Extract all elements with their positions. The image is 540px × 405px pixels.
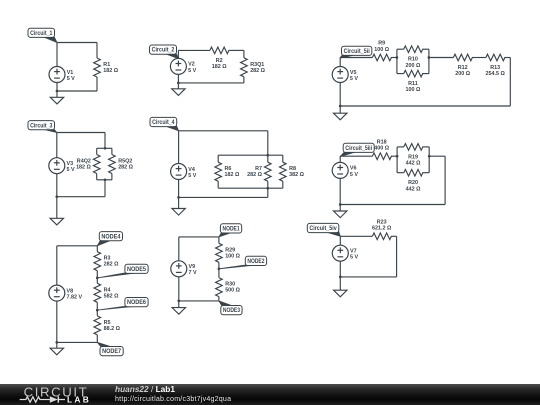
svg-text:5 V: 5 V <box>350 255 358 261</box>
svg-text:442 Ω: 442 Ω <box>406 161 421 167</box>
wire R5 top lead <box>96 310 98 316</box>
wire V3 bottom lead <box>56 174 58 197</box>
resistor R4 <box>94 283 119 302</box>
ground <box>172 197 185 215</box>
svg-text:182 Ω: 182 Ω <box>76 165 91 171</box>
wire R11 right lead <box>422 73 429 75</box>
wire V6 bottom lead <box>339 178 341 204</box>
svg-text:V7: V7 <box>350 249 357 255</box>
svg-text:582 Ω: 582 Ω <box>104 293 119 299</box>
circuit label Circuit_5iii <box>340 143 374 156</box>
resistor R6 <box>215 162 240 181</box>
circuit label Circuit_4 <box>150 117 179 130</box>
voltage source V8 <box>49 285 83 301</box>
wire V9 bottom lead <box>178 277 180 301</box>
node label NODE5 <box>97 264 148 278</box>
svg-text:V1: V1 <box>67 70 74 76</box>
svg-text:V3: V3 <box>67 161 74 167</box>
wire V5 top lead <box>339 58 341 67</box>
svg-text:Circuit_4: Circuit_4 <box>152 119 175 126</box>
wire top C5iv <box>340 235 372 237</box>
junction parallel bottom node C4 <box>266 187 269 190</box>
node label NODE2 <box>219 256 267 269</box>
wire R12-R13 <box>472 57 486 59</box>
wire top V8 circuit <box>57 245 98 247</box>
wire V3 top lead <box>56 133 58 158</box>
junction NODE2 <box>218 267 221 270</box>
svg-text:V8: V8 <box>67 288 74 294</box>
svg-text:200 Ω: 200 Ω <box>455 71 470 77</box>
wire parallel left vertical C5iii <box>396 147 398 173</box>
wire parallel bottom edge C4 <box>218 187 283 189</box>
wire C5iii right <box>429 155 445 157</box>
wire V5 bottom lead <box>339 82 341 106</box>
wire R4 top lead <box>96 278 98 283</box>
junction parallel bottom node C3 <box>104 178 107 181</box>
svg-text:Circuit_3: Circuit_3 <box>30 122 53 129</box>
svg-text:Circuit_5iv: Circuit_5iv <box>309 225 337 232</box>
wire parallel left vertical <box>396 49 398 73</box>
svg-text:100 Ω: 100 Ω <box>225 253 240 259</box>
junction C3 ground node <box>55 195 58 198</box>
svg-text:R23: R23 <box>377 219 387 225</box>
svg-text:88.2 Ω: 88.2 Ω <box>104 326 121 332</box>
svg-text:NODE7: NODE7 <box>102 348 122 355</box>
svg-text:NODE4: NODE4 <box>101 233 121 240</box>
wire bottom V8 circuit <box>57 341 98 343</box>
wire V9 top lead <box>178 237 180 261</box>
ground <box>50 197 63 225</box>
voltage source V6 <box>332 162 358 178</box>
svg-text:200 Ω: 200 Ω <box>406 63 421 69</box>
wire right-upper C1 <box>96 43 98 59</box>
resistor R3Q1 <box>241 58 266 77</box>
wire V8 bottom lead <box>56 301 58 343</box>
resistor R1 <box>94 58 119 77</box>
wire bottom C2 <box>178 82 244 84</box>
node label NODE1 <box>219 224 242 237</box>
junction C2 ground node <box>177 82 180 85</box>
wire R10 right lead <box>422 48 429 50</box>
svg-text:R2: R2 <box>216 58 223 64</box>
wire feed to parallel C4 <box>267 131 269 155</box>
wire V7 bottom lead <box>339 261 341 277</box>
circuit label Circuit_5ii <box>340 46 372 58</box>
CircuitLab logo <box>14 384 112 405</box>
wire V7 top lead <box>339 236 341 245</box>
wire R20 left lead <box>397 172 404 174</box>
voltage source V7 <box>332 245 358 261</box>
junction C4 ground node <box>177 196 180 199</box>
wire right-lower C1 <box>96 77 98 91</box>
resistor R11 <box>404 70 423 93</box>
junction NODE5 <box>96 277 99 280</box>
svg-text:Circuit_2: Circuit_2 <box>152 47 175 54</box>
wire R6 bottom lead <box>217 181 219 188</box>
wire top-right C2 <box>228 49 244 51</box>
junction parallel left node <box>396 56 399 59</box>
svg-text:R13: R13 <box>490 65 500 71</box>
footer bar <box>0 384 540 405</box>
svg-text:R19: R19 <box>408 154 418 160</box>
wire V8 top lead <box>56 246 58 285</box>
wire parallel top edge C3 <box>97 147 112 149</box>
svg-text:LAB: LAB <box>67 395 91 405</box>
svg-text:282 Ω: 282 Ω <box>118 165 133 171</box>
wire bottom C5ii <box>340 105 510 107</box>
wire to R12 <box>429 57 454 59</box>
wire R7 top lead <box>267 155 269 162</box>
voltage source V3 <box>49 158 75 174</box>
node label NODE4 <box>97 232 122 246</box>
svg-text:NODE5: NODE5 <box>127 266 147 273</box>
resistor R4Q2 <box>76 155 100 174</box>
junction V8 ground node <box>55 341 58 344</box>
resistor R10 <box>404 46 423 69</box>
ground <box>172 83 185 96</box>
junction C1 ground node <box>56 90 59 93</box>
wire V6 top lead <box>339 156 341 162</box>
wire R3 top lead <box>96 246 98 252</box>
svg-text:Circuit_1: Circuit_1 <box>30 30 53 37</box>
wire down from parallel C4 <box>267 188 269 197</box>
wire parallel bottom edge C3 <box>97 179 112 181</box>
resistor R5Q2 <box>109 155 134 174</box>
svg-text:NODE6: NODE6 <box>127 299 147 306</box>
wire V4 bottom lead <box>178 179 180 197</box>
wire R10 left lead <box>397 48 404 50</box>
svg-text:5 V: 5 V <box>67 76 75 82</box>
svg-text:400 Ω: 400 Ω <box>374 146 389 152</box>
svg-text:282 Ω: 282 Ω <box>104 262 119 268</box>
wire to right edge C5iv <box>391 235 397 237</box>
resistor R20 <box>404 169 423 192</box>
wire R8 top lead <box>282 155 284 162</box>
svg-text:NODE1: NODE1 <box>223 226 241 233</box>
junction parallel right node C5iii <box>428 155 431 158</box>
svg-text:V9: V9 <box>189 264 196 270</box>
svg-text:500 Ω: 500 Ω <box>225 288 240 294</box>
wire V1 top lead <box>56 43 58 67</box>
wire R30 top lead <box>218 269 220 278</box>
resistor R12 <box>453 54 472 77</box>
svg-text:100 Ω: 100 Ω <box>374 47 389 53</box>
svg-text:V4: V4 <box>188 167 195 173</box>
wire right edge C5ii <box>509 58 511 107</box>
wire R19 left lead <box>397 146 404 148</box>
resistor R13 <box>485 54 505 77</box>
wire bottom C5iii <box>340 204 445 206</box>
junction C5iii ground node <box>339 203 342 206</box>
wire R11 left lead <box>397 73 404 75</box>
ground <box>172 301 185 314</box>
svg-text:R9: R9 <box>378 41 385 47</box>
resistor R30 <box>216 278 241 297</box>
svg-text:7.82 V: 7.82 V <box>67 295 83 301</box>
wire bottom V9 circuit <box>179 300 219 302</box>
wire parallel right vertical <box>428 49 430 73</box>
ground <box>334 205 347 218</box>
wire R8 bottom lead <box>282 181 284 188</box>
wire V2 top lead <box>177 50 179 58</box>
svg-text:282 Ω: 282 Ω <box>250 68 265 74</box>
svg-text:282 Ω: 282 Ω <box>247 172 262 178</box>
wire right edge C5iii <box>444 156 446 204</box>
node label NODE6 <box>97 298 148 311</box>
svg-text:V6: V6 <box>350 166 357 172</box>
node label NODE3 <box>219 301 242 315</box>
svg-text:R11: R11 <box>408 81 418 87</box>
voltage source V5 <box>332 67 358 83</box>
svg-text:NODE3: NODE3 <box>223 307 241 314</box>
wire parallel top edge C4 <box>218 154 283 156</box>
ground <box>334 277 347 297</box>
wire top C1 <box>57 42 97 44</box>
wire to right edge <box>504 57 510 59</box>
resistor R8 <box>279 162 304 181</box>
wire R5Q2 top lead <box>111 148 113 154</box>
svg-text:442 Ω: 442 Ω <box>406 186 421 192</box>
wire V2 bottom lead <box>177 74 179 83</box>
svg-text:182 Ω: 182 Ω <box>212 64 227 70</box>
wire R5 bottom lead <box>96 335 98 343</box>
wire R20 right lead <box>422 172 429 174</box>
svg-text:R12: R12 <box>458 65 468 71</box>
wire bottom C4 <box>179 196 268 198</box>
ground <box>334 106 347 120</box>
node label NODE7 <box>97 342 123 355</box>
voltage source V4 <box>171 164 197 180</box>
wire top C4 <box>179 130 268 132</box>
wire top-left C2 <box>178 49 210 51</box>
circuit label Circuit_5iv <box>307 223 340 236</box>
wire R7 bottom lead <box>267 181 269 188</box>
circuit label Circuit_1 <box>28 28 57 42</box>
wire R6 top lead <box>217 155 219 162</box>
wire feed to parallel C3 <box>104 133 106 149</box>
wire R30 bottom lead <box>218 297 220 301</box>
junction parallel top node C3 <box>104 147 107 150</box>
wire top C3 <box>57 132 105 134</box>
wire R3-R4 <box>96 271 98 278</box>
voltage source V9 <box>171 261 197 277</box>
svg-text:5 V: 5 V <box>67 167 75 173</box>
resistor R18 <box>372 139 391 159</box>
svg-text:182 Ω: 182 Ω <box>225 172 240 178</box>
circuit label Circuit_3 <box>28 121 57 133</box>
junction C5ii ground node <box>339 105 342 108</box>
wire bottom C1 <box>57 90 97 92</box>
svg-text:7 V: 7 V <box>189 270 197 276</box>
wire C5iii left <box>340 155 372 157</box>
wire V4 top lead <box>178 131 180 164</box>
wire C5ii left <box>340 57 372 59</box>
junction parallel top node C4 <box>266 154 269 157</box>
svg-text:Circuit_5iii: Circuit_5iii <box>345 145 372 152</box>
wire right-lower C2 <box>243 77 245 83</box>
wire R29 top lead <box>218 237 220 243</box>
svg-text:5 V: 5 V <box>188 173 196 179</box>
svg-text:Circuit_5ii: Circuit_5ii <box>344 48 370 55</box>
voltage source V2 <box>170 58 196 74</box>
wire C5ii to parallel <box>391 57 397 59</box>
svg-text:V5: V5 <box>350 70 357 76</box>
resistor R23 <box>372 219 392 239</box>
wire bottom C5iv <box>340 276 396 278</box>
svg-text:5 V: 5 V <box>350 172 358 178</box>
wire R5Q2 bottom lead <box>111 174 113 180</box>
wire right-upper C2 <box>243 50 245 57</box>
wire V1 bottom lead <box>56 82 58 91</box>
resistor R5 <box>94 316 121 335</box>
wire R4Q2 bottom lead <box>96 174 98 180</box>
svg-text:R18: R18 <box>377 139 387 145</box>
voltage source V1 <box>49 67 75 83</box>
junction parallel right node <box>428 56 431 59</box>
svg-text:R20: R20 <box>408 180 418 186</box>
svg-text:182 Ω: 182 Ω <box>103 68 118 74</box>
wire bottom C3 <box>57 196 105 198</box>
svg-text:382 Ω: 382 Ω <box>289 172 304 178</box>
svg-text:R10: R10 <box>408 57 418 63</box>
junction C5iv ground node <box>339 276 342 279</box>
svg-text:V2: V2 <box>188 62 195 68</box>
resistor R9 <box>372 41 391 61</box>
resistor R7 <box>247 162 271 181</box>
wire to parallel C5iii <box>391 155 397 157</box>
wire parallel right vertical C5iii <box>428 147 430 173</box>
project title and url <box>115 385 231 404</box>
wire right edge C5iv <box>396 236 398 277</box>
wire R19 right lead <box>422 146 429 148</box>
ground <box>50 91 63 104</box>
wire R29-R30 <box>218 262 220 269</box>
svg-text:100 Ω: 100 Ω <box>406 87 421 93</box>
resistor R3 <box>94 252 119 271</box>
junction parallel left node C5iii <box>396 155 399 158</box>
resistor R2 <box>210 47 229 70</box>
resistor R19 <box>404 144 423 167</box>
wire R4Q2 top lead <box>96 148 98 154</box>
junction NODE6 <box>96 309 99 312</box>
svg-text:254.5 Ω: 254.5 Ω <box>485 71 505 77</box>
svg-text:5 V: 5 V <box>188 68 196 74</box>
junction V9 ground node <box>177 300 180 303</box>
resistor R29 <box>216 243 241 262</box>
wire down from parallel C3 <box>104 180 106 197</box>
wire R4-R5 <box>96 302 98 310</box>
circuit label Circuit_2 <box>150 45 179 59</box>
wire top V9 circuit <box>179 236 219 238</box>
ground <box>50 342 63 354</box>
svg-text:621.2 Ω: 621.2 Ω <box>372 226 392 232</box>
svg-text:NODE2: NODE2 <box>247 258 265 265</box>
svg-text:5 V: 5 V <box>350 76 358 82</box>
